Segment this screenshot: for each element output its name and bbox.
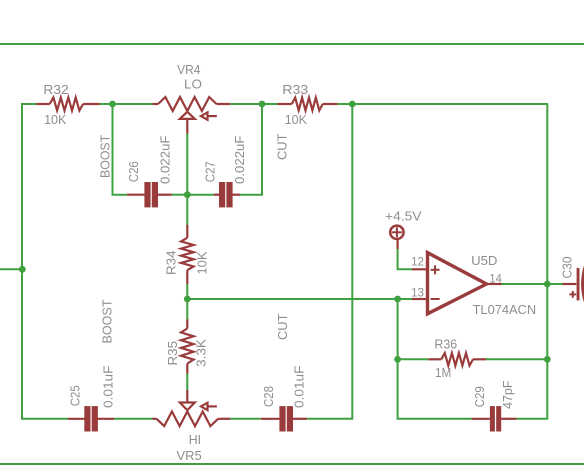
svg-text:C30: C30	[560, 257, 575, 279]
resistor R34	[181, 225, 194, 285]
wire pin13 junction down to C29 row	[398, 299, 472, 419]
op-amp U5D triangle	[428, 253, 487, 314]
node junction (352.3,104)	[349, 101, 356, 108]
wire R36 left	[398, 358, 429, 360]
VR5 arrow	[207, 405, 217, 407]
svg-text:CUT: CUT	[275, 133, 290, 160]
resistor R33	[278, 98, 338, 111]
wire bottom rail net	[0, 463, 584, 465]
capacitor C25	[68, 418, 85, 420]
VR4 wiper triangle	[180, 112, 195, 119]
wire op-amp output to C30	[502, 283, 563, 285]
wire R35 to VR5 wiper	[186, 374, 188, 391]
wire middle junction to op-amp pin 13	[187, 298, 412, 300]
wire VR5 to C28	[230, 418, 260, 420]
C30 plus mark	[569, 293, 576, 295]
svg-text:10K: 10K	[285, 112, 308, 127]
wire C27 branch vertical x=262	[240, 104, 262, 195]
wire C28 up to R33 junction	[307, 104, 352, 419]
op-amp U5D pin stubs	[412, 269, 502, 299]
svg-text:1M: 1M	[435, 365, 451, 380]
wire C26 branch vertical x=112.5	[113, 104, 128, 195]
svg-text:C27: C27	[203, 161, 218, 182]
VR4 arrow	[207, 115, 217, 117]
node output junction (548,283.5)	[544, 281, 551, 288]
capacitor C28	[261, 418, 280, 420]
node junction (187.3,194.7)	[184, 191, 191, 198]
svg-text:47pF: 47pF	[500, 380, 515, 409]
svg-text:CUT: CUT	[275, 313, 290, 340]
capacitor C27	[214, 194, 219, 196]
svg-text:0.01uF: 0.01uF	[101, 365, 116, 408]
svg-text:10K: 10K	[195, 251, 210, 274]
wire input from left edge	[0, 268, 22, 270]
svg-text:+4.5V: +4.5V	[385, 209, 422, 224]
svg-text:10K: 10K	[44, 112, 67, 127]
svg-text:TL074ACN: TL074ACN	[473, 302, 536, 317]
svg-text:0.022uF: 0.022uF	[158, 135, 173, 184]
wire R33 to feedback vertical	[338, 103, 548, 105]
svg-text:14: 14	[489, 272, 502, 286]
wire right vertical x=548 down to C29 row	[517, 104, 548, 419]
wire R34 to middle junction	[186, 284, 188, 299]
svg-text:VR5: VR5	[177, 448, 202, 463]
capacitor C30 polarized, clipped at edge	[562, 283, 576, 285]
VR4 wiper stem	[186, 119, 188, 134]
node junction (262,104)	[259, 101, 266, 108]
potentiometer VR5	[153, 390, 231, 426]
resistor R36	[428, 353, 486, 366]
node input junction	[19, 266, 26, 273]
svg-text:LO: LO	[184, 77, 202, 92]
node junction (187.3,299)	[184, 296, 191, 303]
VR5 wiper stem	[186, 390, 188, 403]
svg-text:R34: R34	[164, 251, 179, 276]
op-amp minus input mark	[431, 298, 440, 300]
wire R32 to VR4	[100, 103, 153, 105]
capacitor C29	[472, 418, 490, 420]
wire VR4 to R33	[230, 103, 277, 105]
svg-text:0.01uF: 0.01uF	[292, 365, 307, 408]
potentiometer VR4	[153, 97, 231, 134]
svg-text:BOOST: BOOST	[98, 135, 113, 178]
svg-text:12: 12	[411, 255, 424, 269]
svg-text:R32: R32	[43, 82, 68, 97]
resistor R32	[36, 98, 99, 111]
svg-text:13: 13	[411, 285, 424, 299]
svg-text:C25: C25	[68, 385, 83, 406]
node junction (397.6,299)	[394, 296, 401, 303]
svg-text:HI: HI	[189, 432, 201, 447]
power pin stub	[397, 239, 399, 249]
node junction (112.5,104)	[109, 101, 116, 108]
svg-text:C26: C26	[126, 161, 141, 182]
svg-text:R36: R36	[434, 337, 457, 352]
capacitor C26	[127, 194, 145, 196]
resistor R35	[181, 320, 194, 374]
svg-text:0.022uF: 0.022uF	[232, 135, 247, 184]
node junction (548,356.8)	[544, 356, 551, 363]
wire middle junction down to R35	[186, 299, 188, 320]
wire R36 right	[486, 358, 547, 360]
svg-text:VR4: VR4	[177, 62, 200, 77]
svg-text:3.3K: 3.3K	[194, 339, 209, 367]
power +4.5V supply symbol	[390, 226, 403, 249]
wire VR4 wiper to center junction	[186, 134, 188, 195]
wire power to op-amp pin 12	[398, 249, 412, 269]
svg-text:R33: R33	[282, 82, 308, 97]
wire left vertical x=22	[22, 104, 68, 419]
node junction (397.6,356.8)	[394, 356, 401, 363]
wire center junction down to R34	[186, 195, 188, 225]
wire C25 to VR5	[114, 418, 153, 420]
wire C26 to center junction	[172, 194, 187, 196]
VR5 wiper triangle	[180, 403, 195, 411]
svg-text:C28: C28	[261, 386, 276, 407]
svg-text:BOOST: BOOST	[100, 299, 115, 343]
wire top rail net	[0, 43, 584, 45]
svg-text:R35: R35	[165, 341, 180, 366]
svg-text:C29: C29	[472, 386, 487, 407]
op-amp plus input mark	[431, 265, 440, 299]
wire center junction to C27	[187, 194, 214, 196]
svg-text:U5D: U5D	[471, 253, 497, 268]
